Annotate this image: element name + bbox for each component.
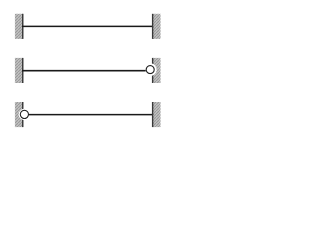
wall face line bottom-left (22, 102, 24, 127)
wall hatch bottom-right fixed support (153, 102, 161, 127)
pin circle bottom-left (20, 110, 28, 118)
wall face line top-right (152, 14, 154, 39)
beam 3 (pinned-fixed) (29, 114, 153, 116)
beam 2 (fixed-pinned) (22, 70, 146, 72)
pin circle middle-right (146, 66, 154, 74)
wall hatch top-right fixed support (153, 14, 161, 39)
pin halo middle-right (white clearance) (144, 63, 157, 76)
wall hatch bottom-left (15, 102, 23, 127)
wall face line middle-right (152, 58, 154, 83)
wall hatch top-left fixed support (15, 14, 23, 39)
beam 1 (fixed-fixed) (22, 25, 153, 27)
wall face line bottom-right (152, 102, 154, 127)
wall hatch middle-right (153, 58, 161, 83)
wall face line middle-left (22, 58, 24, 83)
pin halo bottom-left (white clearance) (19, 109, 30, 120)
wall hatch middle-left fixed support (15, 58, 23, 83)
wall face line top-left (22, 14, 24, 39)
